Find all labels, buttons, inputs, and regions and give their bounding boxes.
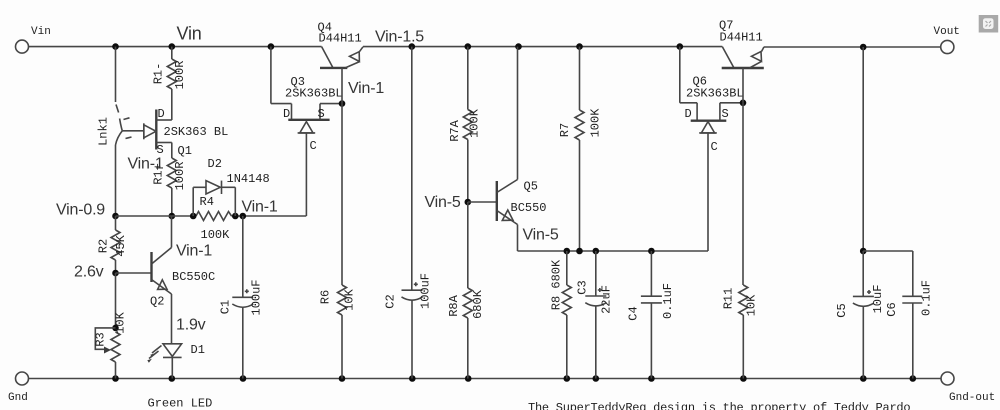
node Vin-1.5 annotation (375, 29, 424, 46)
svg-text:680K: 680K (471, 289, 485, 319)
terminal Gnd-out (941, 372, 995, 404)
svg-text:D44H11: D44H11 (319, 32, 362, 46)
svg-text:R1-: R1- (152, 63, 166, 85)
capacitor C2 (384, 47, 433, 379)
svg-text:Gnd: Gnd (8, 392, 28, 404)
transistor Q3 2SK363BL (271, 47, 343, 216)
svg-text:BC550: BC550 (511, 201, 547, 215)
svg-text:R3: R3 (94, 332, 108, 346)
node Vin-5 base (465, 199, 472, 206)
svg-text:22uF: 22uF (600, 285, 614, 314)
svg-text:D: D (685, 107, 692, 121)
svg-text:45K: 45K (114, 234, 128, 256)
svg-text:100uF: 100uF (250, 279, 264, 315)
svg-text:R7A: R7A (448, 119, 462, 141)
svg-text:C: C (711, 140, 718, 154)
wire Vin-0.9 net (116, 215, 197, 217)
label Green LED (148, 397, 213, 410)
svg-text:2SK363BL: 2SK363BL (285, 87, 343, 101)
node Vin-0.9 annotation (56, 202, 105, 219)
node Q3 source junction (339, 100, 346, 107)
svg-text:R4: R4 (200, 195, 214, 209)
svg-text:2SK363BL: 2SK363BL (686, 87, 744, 101)
svg-text:Vin: Vin (31, 26, 51, 38)
svg-text:R11: R11 (722, 288, 736, 310)
svg-text:Vin-1: Vin-1 (242, 199, 278, 216)
icon fullscreen top right (979, 15, 999, 33)
node dots bottom rail (112, 375, 916, 382)
svg-text:100R: 100R (173, 61, 187, 90)
svg-text:C1: C1 (219, 300, 233, 314)
svg-text:Vout: Vout (934, 26, 960, 38)
diode D2 1N4148 (193, 157, 270, 216)
node Q6 source junction (740, 100, 747, 107)
svg-text:0.1uF: 0.1uF (661, 283, 675, 319)
svg-text:100K: 100K (201, 228, 231, 242)
svg-text:100uF: 100uF (419, 273, 433, 309)
resistor R7 (558, 47, 603, 251)
svg-text:R6: R6 (319, 290, 333, 304)
transistor Q1 2SK363 BL (122, 107, 228, 158)
node Vin annotation (177, 24, 202, 44)
svg-text:Gnd-out: Gnd-out (949, 392, 995, 404)
svg-text:R7: R7 (558, 123, 572, 137)
svg-text:The SuperTeddyReg design is th: The SuperTeddyReg design is the property… (528, 401, 910, 410)
svg-text:Vin: Vin (177, 24, 202, 44)
trimmer R3 (94, 311, 128, 378)
svg-text:Q1: Q1 (178, 144, 192, 158)
svg-text:2SK363 BL: 2SK363 BL (164, 125, 229, 139)
resistor R1- (152, 47, 188, 120)
svg-text:10K: 10K (114, 311, 128, 333)
transistor Q4 D44H11 (318, 21, 364, 104)
svg-text:D: D (158, 107, 165, 121)
svg-text:Q5: Q5 (524, 180, 538, 194)
link Lnk1 (97, 105, 132, 146)
svg-text:100K: 100K (589, 108, 603, 138)
svg-text:R8A: R8A (447, 294, 461, 316)
wire Vin rail left (29, 46, 322, 48)
LED D1 (147, 340, 205, 379)
svg-text:S: S (318, 107, 325, 121)
capacitor C6 (885, 280, 934, 379)
terminal Vout (934, 26, 960, 54)
resistor R11 (722, 103, 759, 379)
wire Vout rail (764, 46, 941, 48)
node Vin-1 annotation R4 (242, 199, 278, 216)
resistor R7A (448, 47, 482, 202)
svg-text:1.9v: 1.9v (176, 317, 206, 334)
svg-text:C3: C3 (576, 280, 590, 294)
svg-text:D44H11: D44H11 (720, 31, 763, 45)
svg-text:D: D (283, 107, 290, 121)
transistor Q2 BC550C (116, 216, 216, 340)
node Vin-1 annotation Q1 (128, 156, 164, 173)
capacitor C3 (576, 251, 614, 379)
transistor Q7 D44H11 (719, 19, 764, 103)
capacitor C4 (627, 251, 676, 379)
svg-text:C5: C5 (835, 303, 849, 317)
svg-text:Vin-1.5: Vin-1.5 (375, 29, 424, 46)
svg-text:BC550C: BC550C (172, 270, 215, 284)
caption bottom (528, 401, 910, 410)
svg-text:R8 680K: R8 680K (550, 259, 564, 310)
resistor R6 (319, 104, 357, 379)
svg-text:100R: 100R (173, 162, 187, 191)
resistor R4 (196, 195, 232, 242)
svg-text:C: C (310, 139, 317, 153)
svg-text:Vin-5: Vin-5 (523, 227, 559, 244)
wire 2.6v to R3 (112, 273, 119, 331)
svg-text:0.1uF: 0.1uF (920, 280, 934, 316)
node Vin-0.9 junction R1+ (169, 213, 176, 220)
wire left column upper (115, 47, 117, 102)
node Vin-1 annotation Q2 (176, 243, 212, 260)
node dots top rail (112, 43, 866, 50)
wire Vin-5 net (518, 248, 709, 255)
node 2.6v (112, 270, 119, 277)
svg-text:S: S (722, 107, 729, 121)
svg-text:Vin-1: Vin-1 (128, 156, 164, 173)
svg-text:R2: R2 (97, 239, 111, 253)
wire Vin-1 net (190, 213, 306, 220)
svg-text:Vin-1: Vin-1 (348, 80, 384, 97)
svg-text:2.6v: 2.6v (74, 264, 104, 281)
svg-text:Green LED: Green LED (148, 397, 213, 410)
svg-text:D1: D1 (191, 343, 205, 357)
svg-text:100K: 100K (468, 108, 482, 138)
capacitor C1 (219, 216, 264, 379)
terminal Gnd (8, 372, 29, 404)
node 1.9v annotation (176, 317, 206, 334)
svg-text:10K: 10K (343, 288, 357, 310)
capacitor C5 (835, 251, 885, 379)
resistor R8A (447, 202, 485, 379)
wire Vin-1.5 rail (363, 46, 722, 48)
transistor Q6 2SK363BL (680, 47, 744, 251)
transistor Q5 BC550 (468, 47, 547, 251)
svg-text:C6: C6 (885, 302, 899, 316)
terminal Vin input (16, 26, 51, 53)
svg-text:Vin-1: Vin-1 (176, 243, 212, 260)
svg-text:C2: C2 (384, 294, 398, 308)
svg-text:Vin-5: Vin-5 (425, 194, 461, 211)
svg-text:Vin-0.9: Vin-0.9 (56, 202, 105, 219)
node Vin-5 annotation emitter (523, 227, 559, 244)
svg-text:10uF: 10uF (871, 285, 885, 314)
wire Vout to C5 (860, 47, 913, 296)
wire Gnd rail (29, 378, 942, 380)
svg-text:10K: 10K (745, 294, 759, 316)
node 2.6v annotation (74, 264, 104, 281)
resistor R8 (550, 251, 572, 379)
svg-text:C4: C4 (627, 306, 641, 320)
svg-text:Lnk1: Lnk1 (97, 117, 111, 146)
wire Lnk1 to Vin-0.9 (112, 145, 119, 219)
node Vin-1 annotation Q4 (348, 80, 384, 97)
resistor R2 (97, 216, 129, 273)
svg-text:D2: D2 (208, 157, 222, 171)
node Vin-5 annotation base (425, 194, 461, 211)
svg-text:1N4148: 1N4148 (227, 172, 270, 186)
resistor R1+ (152, 143, 188, 217)
svg-text:Q2: Q2 (150, 295, 164, 309)
